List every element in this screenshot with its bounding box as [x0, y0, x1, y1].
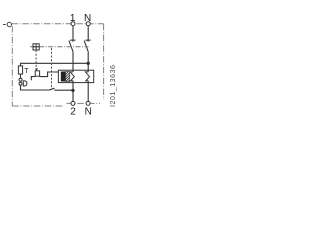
svg-text:N: N: [85, 107, 92, 118]
wire pole1 lower: [72, 81, 74, 102]
svg-text:2: 2: [70, 107, 76, 118]
enclosure boundary bottom through terminals (dash-dot): [67, 102, 101, 104]
test wire top (to N pole): [21, 63, 89, 66]
wire contact to bottom: [21, 85, 49, 90]
trip linkage arrowhead: [35, 68, 38, 70]
terminal N bottom circle: [86, 101, 90, 105]
fixed contact poleN: [85, 40, 90, 42]
enclosure boundary top (dash-dot): [12, 23, 104, 25]
svg-text:I201_13636: I201_13636: [108, 65, 117, 107]
release wire left stub: [31, 77, 35, 81]
mechanical coupling line (dash-dot): [30, 46, 89, 48]
release (trip relay) box: [35, 71, 39, 76]
current transformer core (solid + hatched): [61, 72, 70, 82]
fixed contact pole1: [70, 40, 75, 42]
terminal 2 circle: [71, 101, 75, 105]
wire poleN lower: [87, 81, 89, 102]
wire resistor to contact: [20, 74, 22, 78]
enclosure boundary bottom-left (dash-dot): [12, 105, 64, 107]
trip linkage (dashed, square to release): [35, 50, 37, 68]
junction dot on N pole: [87, 62, 90, 65]
enclosure boundary left (dash-dot): [11, 26, 13, 106]
wire poleN middle: [87, 51, 89, 72]
svg-text:T: T: [24, 68, 29, 75]
test circuit contact blade (bottom wire): [49, 88, 55, 90]
switch blade poleN: [84, 41, 88, 52]
wire poleN upper: [87, 26, 89, 40]
primary winding chevron poleN: [85, 72, 89, 81]
terminal X (left supply terminal): [3, 22, 12, 26]
test resistor: [18, 66, 22, 74]
switch blade pole1: [69, 41, 73, 52]
junction dot on pole1: [71, 89, 74, 92]
wire pole1 middle: [72, 51, 74, 72]
test contact linkage (dashed vertical): [51, 48, 53, 88]
terminal 1 circle: [71, 22, 75, 26]
test contact circle lower: [19, 82, 22, 85]
mechanism box with cross: [33, 44, 39, 50]
test contact circle upper: [19, 78, 22, 81]
enclosure boundary right (dash-dot): [103, 24, 105, 100]
current transformer frame: [58, 70, 93, 82]
test button head: [23, 81, 27, 86]
wire pole1 upper: [72, 26, 74, 40]
terminal N top circle: [86, 22, 90, 26]
release wire to CT secondary: [40, 72, 59, 77]
primary winding chevron pole1: [70, 72, 74, 81]
bottom test wire to pole1: [54, 89, 73, 91]
